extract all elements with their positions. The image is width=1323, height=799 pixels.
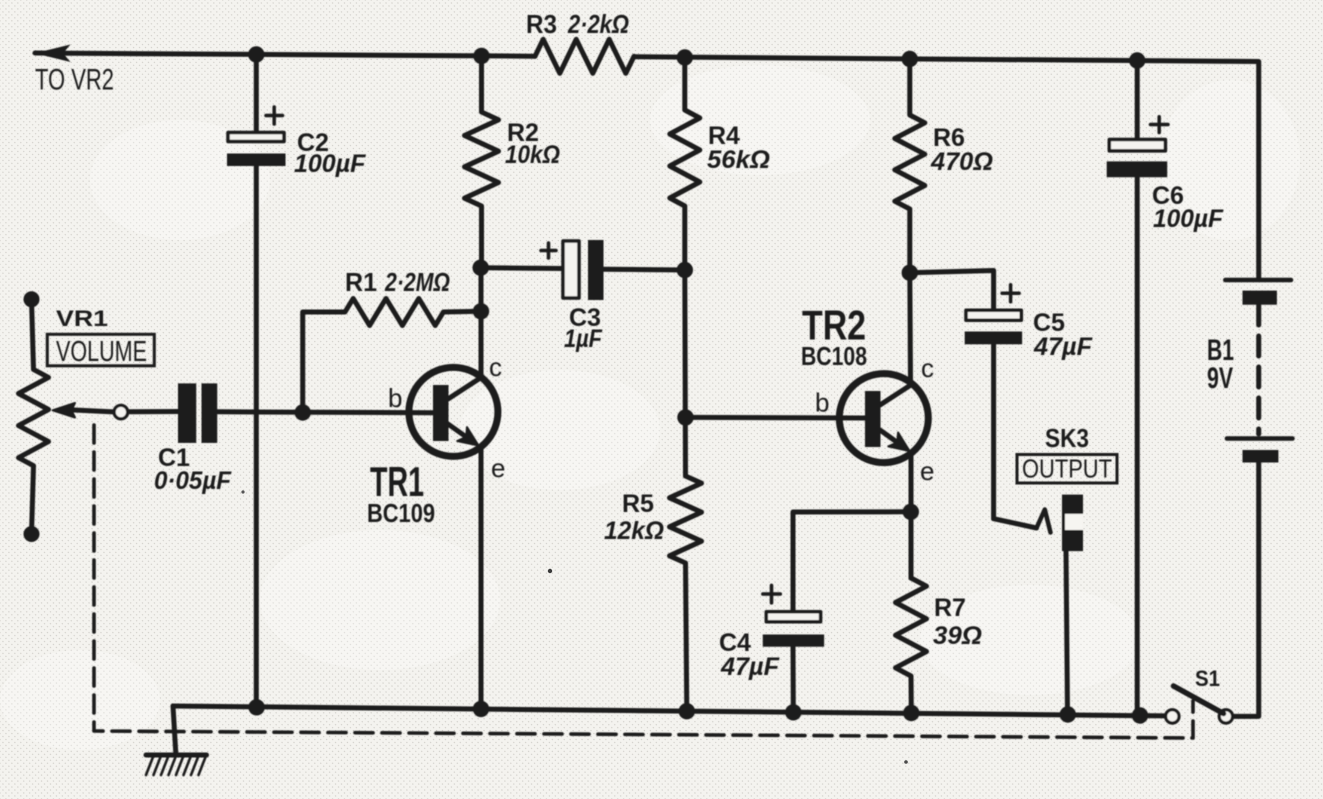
node: junction dot R2 / top rail <box>473 48 489 64</box>
node: VR1 top terminal dot <box>24 291 40 307</box>
svg-text:R3: R3 <box>526 9 557 39</box>
svg-text:R7: R7 <box>934 594 966 622</box>
wire TR1 collector <box>479 268 484 374</box>
transistor TR1 BC109 <box>409 367 498 456</box>
battery B1 9V <box>1225 280 1292 463</box>
resistor R6 body <box>895 59 925 273</box>
ground symbol <box>146 706 207 775</box>
svg-text:R5: R5 <box>622 490 654 518</box>
wire TR2 emitter down <box>909 455 914 578</box>
capacitor C5 plates <box>965 285 1022 345</box>
dashed mechanical link VR1 to S1 <box>94 425 1193 738</box>
node: junction dot R6 / top rail <box>902 51 918 67</box>
switch S1 <box>1166 686 1233 723</box>
svg-text:TO VR2: TO VR2 <box>35 64 114 97</box>
node: junction dot C3 / R4 column <box>677 262 693 278</box>
svg-text:R1: R1 <box>345 267 377 297</box>
resistor R1 body and feedback wires <box>303 299 481 413</box>
node: junction dot R1 / collector line <box>473 303 489 319</box>
svg-text:e: e <box>491 453 505 483</box>
node: junction dot TR2 emitter / C4 branch <box>903 504 919 520</box>
node: junction dot R4 / top rail <box>677 49 693 65</box>
wire C2 column <box>254 55 259 709</box>
resistor R2 body <box>465 56 499 268</box>
socket SK3 body <box>1062 495 1083 551</box>
node: junction dot C6 / bottom rail <box>1132 707 1148 723</box>
svg-text:470Ω: 470Ω <box>930 148 993 176</box>
svg-text:VR1: VR1 <box>56 306 108 331</box>
label OUTPUT box <box>1017 454 1117 484</box>
svg-text:2·2kΩ: 2·2kΩ <box>567 9 629 39</box>
svg-text:S1: S1 <box>1195 666 1220 691</box>
top rail arrowhead <box>35 45 71 63</box>
svg-text:56kΩ: 56kΩ <box>707 146 770 174</box>
wire R4 bottom to R5 and TR2 base column <box>682 270 688 476</box>
node: junction dot SK3 / bottom rail <box>1060 706 1076 722</box>
node: input open circle <box>114 405 128 419</box>
wire TR1 emitter down to rail <box>479 449 484 709</box>
resistor R5 body <box>670 476 702 712</box>
wire C5 branch from collector node <box>910 271 1037 529</box>
capacitor C1 plates <box>178 383 217 443</box>
wire SK3 to bottom rail <box>1066 551 1068 715</box>
wire C4 branch <box>793 512 911 711</box>
svg-text:b: b <box>815 388 829 418</box>
node: junction dot R2 bottom / C3 <box>473 260 489 276</box>
svg-text:0·05µF: 0·05µF <box>154 467 232 495</box>
svg-text:100µF: 100µF <box>1153 205 1224 233</box>
svg-text:c: c <box>921 353 934 383</box>
label VOLUME box <box>47 334 154 368</box>
svg-text:BC108: BC108 <box>801 341 867 371</box>
VR1 wiper arrow <box>53 403 114 418</box>
capacitor C3 plates and wires <box>481 240 685 300</box>
node: junction dot C2 column / bottom rail <box>248 699 264 715</box>
capacitor C6 plates <box>1107 117 1168 178</box>
transistor TR2 BC108 <box>839 374 928 463</box>
capacitor C2 plates <box>227 107 286 166</box>
jack plug tip mark <box>1037 510 1051 533</box>
wire TR2 collector <box>907 273 913 381</box>
svg-text:47µF: 47µF <box>1033 333 1093 361</box>
wire C6 column <box>1135 61 1140 716</box>
svg-text:c: c <box>489 352 502 382</box>
svg-text:OUTPUT: OUTPUT <box>1022 454 1112 484</box>
svg-text:SK3: SK3 <box>1045 423 1089 453</box>
wire TR2 base <box>686 415 866 421</box>
node: junction dot C4 / bottom rail <box>785 704 801 720</box>
svg-text:10kΩ: 10kΩ <box>505 141 560 169</box>
potentiometer VR1 body <box>19 299 49 534</box>
node: junction dot C6 / top rail <box>1129 52 1145 68</box>
node: junction dot R7 / bottom rail <box>903 705 919 721</box>
svg-text:39Ω: 39Ω <box>933 622 982 650</box>
resistor R7 body <box>896 578 927 714</box>
wire TR1 base from C1 <box>128 412 433 413</box>
node: junction dot R6 bottom / C5 branch <box>902 265 918 281</box>
svg-text:9V: 9V <box>1207 362 1233 395</box>
svg-text:b: b <box>388 383 402 413</box>
node: junction dot R1 / base wire <box>295 404 311 420</box>
svg-text:100µF: 100µF <box>294 150 366 178</box>
svg-text:BC109: BC109 <box>367 498 435 528</box>
svg-text:e: e <box>920 456 934 486</box>
wire bottom ground rail <box>173 706 1166 716</box>
svg-text:VOLUME: VOLUME <box>56 336 147 368</box>
svg-text:1µF: 1µF <box>564 325 603 353</box>
wire B1 to switch <box>1233 463 1259 717</box>
resistor R3 2.2k in top rail <box>535 39 634 73</box>
svg-text:47µF: 47µF <box>720 653 780 681</box>
svg-text:2·2MΩ: 2·2MΩ <box>384 267 450 297</box>
svg-text:12kΩ: 12kΩ <box>604 517 664 545</box>
capacitor C4 plates <box>763 585 824 646</box>
node: junction dot C2 / top rail <box>248 46 264 62</box>
resistor R4 body <box>670 58 700 271</box>
node: junction dot TR1 emitter / bottom rail <box>473 701 489 717</box>
node: VR1 bottom terminal dot <box>24 526 40 542</box>
node: junction dot TR2 base tap <box>677 409 693 425</box>
node: junction dot R5 / bottom rail <box>679 703 695 719</box>
wire top supply rail <box>35 53 1259 278</box>
